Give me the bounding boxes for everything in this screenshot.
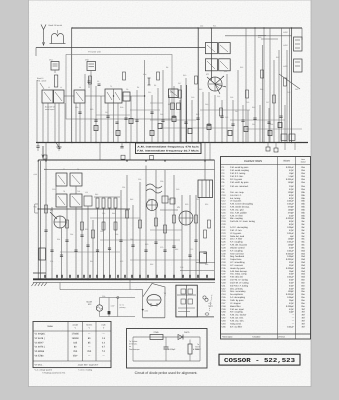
svg-text:C19: C19	[191, 96, 194, 99]
capacitor 0.005	[165, 337, 167, 347]
label aerial input	[45, 106, 56, 112]
AC mains plug	[197, 295, 214, 317]
svg-text:A.M. osc. trim.: A.M. osc. trim.	[230, 319, 244, 322]
discriminator transformer T6	[205, 36, 291, 71]
svg-text:15pF: 15pF	[289, 172, 295, 175]
svg-text:R22: R22	[276, 56, 279, 59]
svg-text:Screen: Screen	[86, 324, 92, 327]
svg-text:R60: R60	[145, 243, 148, 246]
wire verticals IF strip	[37, 28, 290, 143]
svg-text:C60: C60	[176, 188, 179, 191]
wire left HT drop	[71, 28, 73, 143]
svg-text:R42: R42	[95, 193, 98, 196]
wire heater feed	[60, 280, 143, 290]
svg-text:A.M. osc. tracker: A.M. osc. tracker	[230, 314, 247, 317]
svg-text:V2a: V2a	[143, 73, 146, 76]
valves table	[33, 322, 111, 375]
svg-text:Valve: Valve	[47, 325, 53, 328]
svg-text:R40: R40	[44, 168, 47, 171]
svg-text:2nd A.M. I.F. trans. tuning: 2nd A.M. I.F. trans. tuning	[230, 220, 256, 223]
svg-text:C56: C56	[138, 178, 141, 181]
svg-text:C70: C70	[160, 246, 163, 249]
speaker	[146, 184, 162, 193]
svg-text:Model: Model	[87, 301, 93, 304]
rectifier valve V6	[142, 284, 166, 318]
IF can T8	[70, 173, 82, 186]
svg-text:C5: C5	[97, 80, 99, 83]
svg-text:C21: C21	[217, 95, 220, 98]
svg-text:Mix. coupling: Mix. coupling	[230, 217, 244, 220]
svg-text:* A.C. voltage quoted: * A.C. voltage quoted	[34, 369, 52, 372]
svg-text:0.01μF: 0.01μF	[287, 241, 295, 244]
svg-text:C64: C64	[70, 233, 73, 236]
coil L12	[84, 196, 92, 206]
svg-text:Osc. an. coup.: Osc. an. coup.	[230, 191, 244, 194]
svg-text:Cath. by-pass: Cath. by-pass	[230, 299, 244, 302]
svg-text:R28: R28	[120, 106, 123, 109]
svg-text:C76: C76	[120, 260, 123, 263]
svg-text:47pF: 47pF	[289, 273, 295, 276]
svg-text:35f: 35f	[301, 317, 304, 320]
terminal box right	[196, 252, 215, 263]
svg-text:0.005μF: 0.005μF	[286, 267, 295, 270]
IF can T10	[70, 194, 82, 207]
svg-text:35f: 35f	[301, 308, 304, 311]
component labels lower	[44, 168, 208, 269]
diode OA70	[178, 335, 183, 340]
svg-text:R34: R34	[260, 88, 263, 91]
svg-text:I.F. by-pass: I.F. by-pass	[230, 232, 242, 235]
coil can L5	[123, 92, 130, 101]
ground symbol	[57, 143, 62, 151]
svg-text:47pF: 47pF	[289, 281, 295, 284]
triode cluster lower	[160, 196, 178, 210]
IF frequency note box	[136, 143, 202, 154]
component labels top	[48, 36, 298, 126]
svg-text:0.05μF: 0.05μF	[287, 255, 295, 258]
svg-text:C45: C45	[295, 88, 298, 91]
svg-text:C59: C59	[145, 310, 148, 313]
svg-text:R52: R52	[205, 203, 208, 206]
wire interconnects	[64, 96, 302, 129]
svg-text:De-emphasis: De-emphasis	[230, 293, 244, 296]
svg-text:C37: C37	[105, 111, 108, 114]
section link arrow	[42, 146, 44, 158]
svg-text:A.F. coupling: A.F. coupling	[230, 241, 243, 244]
svg-text:T9: T9	[63, 190, 65, 193]
choke L10	[258, 35, 266, 37]
svg-text:Det. I.F. filter: Det. I.F. filter	[230, 238, 243, 241]
svg-text:A.M. intermediate frequency 47: A.M. intermediate frequency 470 kc/s	[137, 146, 200, 149]
capacitor C24	[289, 134, 295, 141]
svg-text:C58: C58	[160, 180, 163, 183]
svg-text:6.3V: 6.3V	[284, 31, 289, 34]
HT supply bus wire	[72, 27, 302, 29]
svg-text:100pF: 100pF	[288, 290, 295, 293]
svg-text:R18: R18	[252, 106, 255, 109]
svg-text:32μF: 32μF	[289, 261, 295, 264]
svg-text:R56: R56	[85, 228, 88, 231]
svg-text:† Readings switched to F.M.: † Readings switched to F.M.	[42, 371, 66, 374]
svg-text:† A.G.C. reading: † A.G.C. reading	[78, 369, 92, 372]
balun transformer	[50, 30, 66, 44]
svg-text:22kΩ: 22kΩ	[154, 331, 159, 334]
svg-text:35f: 35f	[301, 325, 304, 328]
below-bus caps left	[36, 143, 123, 152]
wire heater rail	[263, 28, 303, 143]
svg-text:87pF: 87pF	[289, 197, 295, 200]
svg-text:V4: V4	[148, 198, 150, 201]
svg-text:250*: 250*	[73, 354, 78, 357]
svg-text:Anode: Anode	[72, 324, 77, 327]
svg-text:L12: L12	[85, 191, 88, 194]
svg-text:V3 6BY7: V3 6BY7	[35, 341, 45, 344]
svg-text:R30: R30	[90, 108, 93, 111]
svg-text:R58: R58	[115, 233, 118, 236]
svg-text:R.F. coupling: R.F. coupling	[230, 311, 243, 314]
svg-text:COSSOR - 522,523: COSSOR - 522,523	[224, 357, 295, 364]
svg-text:A.M. bias decoup.: A.M. bias decoup.	[230, 270, 248, 273]
svg-text:R64: R64	[90, 260, 93, 263]
IF panel cluster	[148, 78, 187, 143]
svg-text:Band I/III aerial: Band I/III aerial	[49, 24, 63, 27]
capacitor ticks lower	[44, 230, 206, 256]
svg-text:470pF: 470pF	[288, 206, 295, 209]
svg-text:T10: T10	[77, 190, 80, 193]
svg-text:35f: 35f	[301, 319, 304, 322]
svg-text:L3: L3	[79, 86, 81, 89]
svg-text:R6: R6	[154, 84, 156, 87]
svg-text:Osc. A.M. padder: Osc. A.M. padder	[230, 211, 247, 214]
svg-text:R.F. by-pass: R.F. by-pass	[230, 178, 243, 181]
IF can T9	[56, 194, 67, 207]
wire aerial feeder	[36, 48, 205, 57]
caption diode probe	[135, 371, 198, 375]
svg-text:C27: C27	[266, 101, 269, 104]
wire mid rails	[38, 209, 200, 260]
svg-text:F.M. aer. input: F.M. aer. input	[230, 308, 244, 311]
svg-text:A.F. coupling: A.F. coupling	[230, 249, 243, 252]
valve V4	[147, 200, 158, 211]
rail tap boxes	[43, 155, 154, 160]
svg-text:R4: R4	[137, 86, 139, 89]
svg-text:Osc. temp. comp.: Osc. temp. comp.	[230, 273, 248, 276]
coil can L3	[54, 90, 65, 103]
svg-text:Tone corrector: Tone corrector	[230, 252, 244, 255]
svg-text:100pF: 100pF	[288, 238, 295, 241]
svg-text:6.3V: 6.3V	[284, 44, 289, 47]
svg-text:R44: R44	[112, 212, 115, 215]
svg-text:F.M. I.F. tun.: F.M. I.F. tun.	[230, 229, 242, 232]
svg-text:Volume control: Volume control	[230, 246, 245, 249]
capacitor ticks top	[78, 112, 282, 125]
svg-text:C23: C23	[230, 96, 233, 99]
svg-text:470pF: 470pF	[288, 211, 295, 214]
svg-text:R8: R8	[166, 66, 168, 69]
svg-text:C25: C25	[246, 101, 249, 104]
svg-text:8μF: 8μF	[290, 235, 294, 238]
svg-text:A.M. screen decoupling: A.M. screen decoupling	[230, 203, 254, 206]
svg-text:TEST: TEST	[195, 346, 201, 349]
svg-text:C9: C9	[126, 88, 128, 91]
svg-text:C31: C31	[252, 123, 255, 126]
svg-text:47pF: 47pF	[289, 188, 295, 191]
svg-text:V4 6AT6 {: V4 6AT6 {	[35, 346, 45, 349]
svg-text:C17: C17	[178, 82, 181, 85]
svg-text:R50: R50	[185, 203, 188, 206]
svg-text:47pF: 47pF	[289, 302, 295, 305]
svg-text:47pF: 47pF	[289, 229, 295, 232]
chassis bus wire	[36, 142, 308, 144]
svg-text:2nd F.M. I.F. tuning: 2nd F.M. I.F. tuning	[230, 281, 249, 284]
svg-text:Oscilloscope: Oscilloscope	[129, 348, 140, 351]
svg-text:0.01μF: 0.01μF	[287, 203, 295, 206]
svg-text:1.5pF: 1.5pF	[288, 175, 294, 178]
svg-text:C50: C50	[52, 188, 55, 191]
svg-text:V5 6BW6: V5 6BW6	[35, 350, 45, 353]
resistor network R10-R14	[94, 197, 120, 208]
svg-text:C54: C54	[122, 186, 125, 189]
diode probe circuit box	[127, 329, 208, 369]
wire lower chassis second	[33, 271, 215, 283]
svg-text:R26: R26	[196, 113, 199, 116]
svg-text:L1: L1	[48, 86, 50, 89]
svg-text:F.M. intermediate frequency 10: F.M. intermediate frequency 10.7 Mc/s	[137, 150, 200, 153]
TV tuner unit box	[66, 51, 172, 120]
resistor 4.7M	[189, 340, 191, 345]
svg-text:R54: R54	[57, 238, 60, 241]
svg-text:T.1: T.1	[164, 292, 167, 295]
svg-text:Ratio det. load: Ratio det. load	[230, 235, 245, 238]
svg-text:T2: T2	[110, 85, 112, 88]
svg-text:0.002μF: 0.002μF	[286, 258, 295, 261]
svg-text:C12: C12	[148, 91, 151, 94]
svg-text:T7: T7	[63, 168, 65, 171]
svg-text:150pF: 150pF	[288, 181, 295, 184]
svg-text:terminals: terminals	[129, 343, 137, 346]
svg-text:87pF: 87pF	[289, 220, 295, 223]
svg-text:Mains filter: Mains filter	[230, 305, 241, 308]
svg-text:mains: mains	[208, 305, 213, 308]
valve V2	[206, 73, 222, 91]
svg-text:F.M. osc. intermed.: F.M. osc. intermed.	[230, 185, 249, 188]
svg-text:Heater by-pass: Heater by-pass	[230, 267, 246, 270]
svg-text:C68: C68	[130, 238, 133, 241]
capacitors table	[221, 157, 311, 340]
svg-text:F.M. R.F. tuning: F.M. R.F. tuning	[230, 172, 246, 175]
ground lug	[33, 204, 46, 273]
svg-text:H.T. smoothing: H.T. smoothing	[230, 261, 245, 264]
svg-text:0.001μF: 0.001μF	[286, 178, 295, 181]
wire V2 anode lines	[198, 28, 211, 143]
svg-text:V1 6AQ8 {: V1 6AQ8 {	[35, 333, 46, 336]
svg-text:V7 6X4...: V7 6X4...	[35, 363, 44, 366]
svg-text:B.F. out filter: B.F. out filter	[230, 325, 242, 328]
svg-text:87pF: 87pF	[289, 223, 295, 226]
svg-text:H.T. reservoir: H.T. reservoir	[230, 264, 243, 267]
svg-text:‡Preset: ‡Preset	[278, 335, 285, 338]
svg-text:V2 6AJ8 {: V2 6AJ8 {	[35, 337, 45, 340]
capacitor C5	[98, 84, 101, 86]
svg-text:0.005μF: 0.005μF	[168, 348, 176, 351]
svg-text:R46: R46	[130, 198, 133, 201]
svg-text:OA70: OA70	[184, 331, 190, 334]
svg-text:Neg. feedback: Neg. feedback	[230, 255, 245, 258]
svg-text:0.01μF: 0.01μF	[287, 232, 295, 235]
svg-text:C74: C74	[50, 260, 53, 263]
svg-text:A.M. aer. trim.: A.M. aer. trim.	[230, 317, 244, 320]
junction dots lower	[38, 160, 210, 280]
svg-text:Gang cond.: Gang cond.	[230, 322, 242, 325]
svg-text:A.F. decoupling: A.F. decoupling	[230, 296, 246, 299]
svg-text:25μF: 25μF	[289, 299, 295, 302]
svg-text:R68: R68	[205, 263, 208, 266]
svg-text:100pF: 100pF	[288, 244, 295, 247]
valve V1b	[85, 59, 96, 75]
mains transformer T1	[176, 285, 197, 317]
svg-text:35f: 35f	[301, 311, 304, 314]
resistor R1	[54, 75, 57, 87]
resistor boxes lower	[45, 205, 211, 238]
svg-text:C34: C34	[200, 25, 203, 28]
svg-text:Output tone: Output tone	[230, 258, 242, 261]
capacitor C30 on HT bus	[200, 25, 216, 28]
svg-text:Disc. secondary: Disc. secondary	[230, 290, 246, 293]
svg-text:0.005μF: 0.005μF	[286, 305, 295, 308]
svg-text:F.M. ratio del.: F.M. ratio del.	[230, 276, 244, 279]
svg-text:0.01μF: 0.01μF	[287, 249, 295, 252]
svg-text:CAPACITORS: CAPACITORS	[244, 159, 262, 163]
svg-text:R62: R62	[175, 248, 178, 251]
svg-text:0.002μF: 0.002μF	[286, 217, 295, 220]
svg-text:Disc. primary: Disc. primary	[230, 287, 244, 290]
svg-text:Anode 300*, Target 215*: Anode 300*, Target 215*	[78, 363, 99, 366]
inter-section couplers	[46, 143, 210, 161]
bus terminations lower	[44, 275, 208, 278]
svg-text:0.001μF: 0.001μF	[286, 166, 295, 169]
svg-text:C72: C72	[190, 248, 193, 251]
svg-text:C58: C58	[102, 295, 105, 298]
chassis ground hatching	[32, 283, 47, 287]
aerial Band I/III	[41, 24, 63, 46]
svg-text:47pF: 47pF	[289, 214, 295, 217]
resistor R20	[261, 38, 278, 40]
svg-text:C35: C35	[225, 116, 228, 119]
svg-text:F.M. aerial: F.M. aerial	[37, 80, 47, 83]
svg-text:R10: R10	[183, 74, 186, 77]
heater connector block lower	[284, 44, 303, 72]
svg-text:1st F.M. I.F. tuning: 1st F.M. I.F. tuning	[230, 279, 249, 282]
svg-text:C41: C41	[235, 110, 238, 113]
svg-text:0.01μF: 0.01μF	[287, 276, 295, 279]
junction dots	[71, 27, 292, 143]
svg-text:C66: C66	[100, 230, 103, 233]
svg-text:To: To	[197, 343, 199, 346]
svg-text:22pF: 22pF	[289, 311, 295, 314]
svg-text:T8: T8	[77, 168, 79, 171]
svg-text:V6 EZ80: V6 EZ80	[35, 354, 45, 357]
V2 electrode arrows	[207, 76, 226, 94]
svg-text:0.05μF: 0.05μF	[287, 226, 295, 229]
svg-text:Cath: Cath	[102, 324, 106, 327]
svg-text:C62: C62	[196, 198, 199, 201]
svg-text:POINT: POINT	[195, 348, 202, 351]
svg-text:C78: C78	[180, 266, 183, 269]
wire lower top rail	[38, 160, 214, 170]
svg-text:32μF: 32μF	[289, 264, 295, 267]
svg-text:TV tuner unit: TV tuner unit	[88, 51, 101, 54]
wire left bus pair	[38, 161, 40, 280]
svg-text:47pF: 47pF	[289, 284, 295, 287]
svg-text:100pF: 100pF	[288, 208, 295, 211]
capacitor C23	[281, 134, 287, 141]
svg-text:22pF: 22pF	[289, 185, 295, 188]
svg-text:F.M. oscill. by-pass: F.M. oscill. by-pass	[230, 181, 249, 184]
svg-text:I.F. by-pass: I.F. by-pass	[230, 200, 242, 203]
svg-text:170/85: 170/85	[72, 333, 80, 336]
svg-text:R32: R32	[168, 103, 171, 106]
coil can L2	[42, 90, 53, 103]
resistor R25 below bus	[277, 143, 295, 154]
svg-text:Circuit of diode probe used fo: Circuit of diode probe used for alignmen…	[135, 371, 198, 375]
svg-text:F.M.: F.M.	[34, 206, 38, 209]
svg-text:1st A.M. I.F.: 1st A.M. I.F.	[230, 194, 242, 197]
svg-text:47pF: 47pF	[289, 246, 295, 249]
svg-text:R16: R16	[240, 66, 243, 69]
svg-text:0.002μF: 0.002μF	[286, 293, 295, 296]
svg-text:R48: R48	[168, 198, 171, 201]
heater connector block upper	[284, 31, 303, 51]
svg-text:C52: C52	[102, 212, 105, 215]
svg-text:C16: C16	[170, 91, 173, 94]
svg-text:47pF: 47pF	[289, 169, 295, 172]
svg-text:0.002μF: 0.002μF	[286, 252, 295, 255]
svg-text:35f: 35f	[301, 314, 304, 317]
svg-text:A.M. det. by-pass: A.M. det. by-pass	[230, 244, 248, 247]
svg-text:C43: C43	[205, 103, 208, 106]
wire verticals lower	[46, 160, 215, 280]
svg-text:0.01μF: 0.01μF	[287, 200, 295, 203]
component bodies mid top	[94, 116, 282, 135]
AM FM switch labels	[34, 173, 38, 209]
svg-text:47pF: 47pF	[289, 279, 295, 282]
svg-text:F.M. R.F. trim.: F.M. R.F. trim.	[230, 175, 244, 178]
capacitor C3	[88, 77, 91, 88]
svg-text:0.01μF: 0.01μF	[287, 325, 295, 328]
svg-text:A.M. osc. grid: A.M. osc. grid	[230, 208, 244, 211]
svg-text:47pF: 47pF	[289, 287, 295, 290]
svg-text:180/60: 180/60	[72, 337, 80, 340]
svg-text:Cond: Cond	[301, 161, 306, 164]
svg-text:on: on	[129, 345, 131, 348]
svg-text:C29: C29	[287, 91, 290, 94]
svg-text:R66: R66	[150, 263, 153, 266]
svg-text:6.3V: 6.3V	[284, 65, 289, 68]
svg-text:R20: R20	[258, 36, 261, 39]
svg-text:R21: R21	[213, 25, 216, 28]
Band II aerial label	[37, 77, 47, 89]
svg-text:L2: L2	[60, 86, 62, 89]
svg-text:†Variable: †Variable	[252, 335, 261, 338]
svg-text:25μF: 25μF	[289, 270, 295, 273]
svg-text:87pF: 87pF	[289, 194, 295, 197]
svg-text:0.05μF: 0.05μF	[287, 296, 295, 299]
wire diagonal link	[279, 74, 300, 89]
electrolytic C24a below bus	[266, 143, 278, 153]
svg-text:100pF: 100pF	[288, 191, 295, 194]
title box COSSOR 522,523	[219, 354, 300, 365]
svg-text:R14: R14	[224, 70, 227, 73]
